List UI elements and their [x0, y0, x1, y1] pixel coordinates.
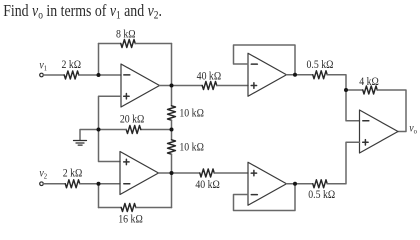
wire 16k feedback left vertical — [98, 184, 100, 208]
svg-text:10 kΩ: 10 kΩ — [179, 142, 204, 154]
wire 0.5k top to corner down to U5 minus — [327, 75, 359, 121]
node ground junction dot (98.5,129.5) — [97, 128, 101, 132]
wire feedback top left segment — [99, 43, 121, 45]
wire 0.5k bottom up to U5 plus input — [327, 142, 359, 184]
resistor 2k top — [64, 71, 79, 79]
svg-text:16 kΩ: 16 kΩ — [118, 214, 143, 225]
svg-text:10 kΩ: 10 kΩ — [179, 108, 204, 120]
svg-text:2 kΩ: 2 kΩ — [63, 168, 83, 180]
svg-text:v2: v2 — [39, 168, 47, 181]
resistor 10k upper — [168, 106, 176, 120]
wire U1 output — [160, 85, 203, 87]
wire v1 to R2k — [43, 74, 64, 76]
wire R2k bottom to U2 minus input — [80, 183, 120, 185]
op-amp U2 triangle — [120, 152, 159, 195]
svg-text:8 kΩ: 8 kΩ — [116, 29, 136, 41]
wire ladder middle segment — [171, 120, 173, 140]
U2 plus sign — [124, 159, 129, 164]
op-amp U1 triangle — [121, 64, 160, 107]
wire ladder bottom segment to U2 output — [171, 154, 173, 173]
wire feedback right vertical to U1 output — [171, 44, 173, 86]
resistor 10k lower — [168, 140, 176, 154]
wire feedback top right segment — [135, 43, 171, 45]
wire ladder upper segment — [171, 86, 173, 106]
terminal v1 — [40, 73, 44, 77]
wire R2k to op-amp U1 minus input — [79, 74, 121, 76]
resistor 40k top — [202, 82, 217, 90]
U3 minus sign — [251, 63, 257, 65]
U3 plus sign — [251, 83, 256, 88]
op-amp U5 triangle — [360, 110, 399, 153]
resistor 4k — [363, 86, 377, 94]
wire 16k bottom left segment — [99, 207, 122, 209]
wire to ground — [80, 130, 99, 141]
wire U3 output — [287, 74, 313, 76]
title text — [3, 2, 162, 22]
node U1 out dot (171.5,85.5) — [170, 84, 174, 88]
resistor 16k — [121, 204, 136, 212]
terminal v2 — [40, 182, 44, 186]
node A dot (98.5,75) — [97, 73, 101, 77]
ground symbol — [74, 141, 87, 146]
node 4k tap dot (346,90) — [344, 88, 348, 92]
U4 plus sign — [251, 170, 256, 175]
resistor 2k bottom — [65, 180, 80, 188]
node U4 out dot (295,183.75) — [293, 182, 297, 186]
wire 20k right segment — [141, 129, 172, 131]
U1 plus sign — [124, 94, 129, 99]
svg-text:4 kΩ: 4 kΩ — [359, 76, 379, 88]
op-amp U3 triangle — [248, 53, 287, 96]
wire 4k left segment — [346, 89, 363, 91]
U1 minus sign — [124, 74, 130, 76]
wire 4k right segment down to U5 output — [377, 90, 406, 132]
resistor 20k — [126, 126, 141, 134]
resistor 0.5k bottom — [313, 180, 327, 188]
wire 40k bottom to U4 plus input — [214, 172, 248, 174]
svg-text:0.5 kΩ: 0.5 kΩ — [308, 190, 335, 202]
svg-text:vo: vo — [409, 123, 417, 136]
wire 16k right vertical to U2 output — [171, 173, 173, 208]
svg-text:40 kΩ: 40 kΩ — [195, 179, 220, 191]
wire 20k left segment to ground node — [99, 129, 127, 131]
resistor 8k feedback — [121, 40, 135, 48]
wire v2 to R2k bottom — [43, 183, 65, 185]
wire U1 plus input bend — [99, 96, 122, 129]
svg-text:Find vo in terms of v1 and v2.: Find vo in terms of v1 and v2. — [3, 2, 162, 22]
wire feedback left vertical — [98, 44, 100, 76]
resistor 0.5k top — [313, 71, 327, 79]
wire 16k bottom right segment — [136, 207, 172, 209]
U2 minus sign — [124, 183, 130, 185]
node v2 feedback dot (98.5,183.75) — [97, 182, 101, 186]
svg-text:40 kΩ: 40 kΩ — [197, 71, 222, 83]
wire 40k to U3 plus input — [217, 85, 248, 87]
svg-text:2 kΩ: 2 kΩ — [62, 59, 82, 71]
wire U2 plus input bend — [99, 130, 121, 162]
wire U4 feedback: down, across, up to minus input — [234, 184, 296, 211]
op-amp U4 triangle — [248, 162, 287, 205]
node ladder mid dot (171.5,129.5) — [170, 128, 174, 132]
svg-text:v1: v1 — [39, 60, 47, 73]
U4 minus sign — [251, 194, 257, 196]
wire U2 output — [159, 172, 200, 174]
resistor 40k bottom — [200, 169, 214, 177]
node U2 out dot (171.5,173) — [170, 171, 174, 175]
svg-text:20 kΩ: 20 kΩ — [120, 114, 145, 126]
wire U3 feedback: up, across, down to minus input — [234, 45, 296, 75]
wire U4 output — [287, 183, 313, 185]
svg-text:0.5 kΩ: 0.5 kΩ — [307, 59, 334, 71]
node U3 out dot (295,74.75) — [293, 73, 297, 77]
U5 plus sign — [363, 140, 368, 145]
U5 minus sign — [363, 120, 369, 122]
